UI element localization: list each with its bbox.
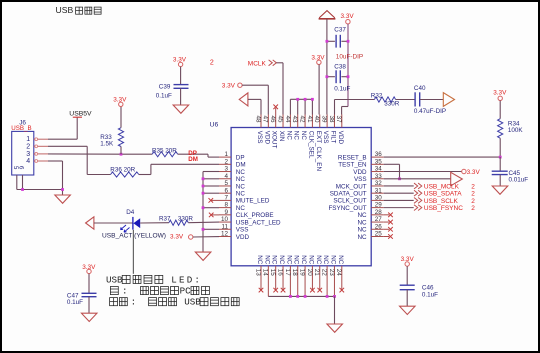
pin 7 MUTE_LED <box>219 195 270 205</box>
no-connect pin 25 <box>384 234 393 239</box>
svg-text:2: 2 <box>471 205 475 212</box>
svg-text:1: 1 <box>26 136 30 143</box>
svg-text:NC: NC <box>293 131 300 141</box>
pin 30 SCLK_OUT <box>333 195 383 205</box>
pin 13 NC <box>254 255 263 292</box>
wire pin33 VSS to port <box>384 172 463 186</box>
power 3.3V to pin40 EXT_CLK_EN <box>311 54 325 114</box>
svg-text:NC: NC <box>322 255 329 265</box>
capacitor C46 0.1uF <box>400 266 438 306</box>
svg-text:4: 4 <box>26 158 30 165</box>
svg-text:18: 18 <box>291 269 298 277</box>
svg-text:2: 2 <box>471 183 475 190</box>
pin 1 DP <box>219 151 245 161</box>
wire pin36 RESET_B to R34/C45 <box>384 156 501 158</box>
svg-text:SDATA_OUT: SDATA_OUT <box>330 190 367 197</box>
ground C46 <box>400 306 416 314</box>
svg-text:USB: USB <box>56 5 74 15</box>
svg-text:VDD: VDD <box>337 131 344 145</box>
svg-text:NC: NC <box>329 255 336 265</box>
svg-text:8: 8 <box>224 202 228 209</box>
wire NC bus left of U6 (pins 3,4,5,6,8,11) <box>203 172 219 253</box>
wire C40 to port <box>420 99 443 101</box>
note line 2: lit = connected to PC <box>110 285 209 296</box>
svg-text:NC: NC <box>285 131 292 141</box>
svg-text:SCLK_OUT: SCLK_OUT <box>333 198 366 205</box>
svg-text:R32: R32 <box>371 93 383 100</box>
svg-text:3.3V: 3.3V <box>113 97 127 104</box>
ground J6 <box>55 195 71 203</box>
svg-text:2: 2 <box>210 59 214 66</box>
pin 24 NC <box>335 255 344 292</box>
svg-text:0.1uF: 0.1uF <box>422 291 438 298</box>
pin 11 VSS <box>219 223 248 233</box>
svg-text:330R: 330R <box>178 215 194 222</box>
svg-text:NC: NC <box>236 190 246 197</box>
pin 2 DM <box>219 158 246 168</box>
svg-text:NC: NC <box>357 234 367 241</box>
capacitor C40 0.47uF-DIP <box>414 85 446 115</box>
svg-text:TEST_EN: TEST_EN <box>338 162 367 169</box>
port USB_SCLK <box>384 198 476 205</box>
port USB_SDATA <box>384 190 476 197</box>
svg-text:C37: C37 <box>334 27 346 34</box>
svg-text:20: 20 <box>306 269 313 277</box>
resistor R37 330R <box>159 215 193 225</box>
svg-text:C39: C39 <box>159 84 171 91</box>
svg-text:D4: D4 <box>126 209 135 216</box>
svg-text:26: 26 <box>375 223 383 230</box>
svg-text:USB_ACT (YELLOW): USB_ACT (YELLOW) <box>102 233 166 240</box>
ground C47 <box>81 313 97 321</box>
pin 27 NC <box>357 216 383 226</box>
pin 26 NC <box>357 223 383 233</box>
pin 12 VDD <box>219 231 250 241</box>
svg-text:21: 21 <box>313 269 320 277</box>
pin 47 VDD <box>262 115 271 145</box>
svg-text:USB_B: USB_B <box>11 125 31 132</box>
ground bottom center <box>327 324 343 332</box>
svg-text:23: 23 <box>328 269 335 277</box>
svg-text:5: 5 <box>224 180 228 187</box>
svg-text:33: 33 <box>375 173 383 180</box>
wire R35 to U6 pin1 (DP) <box>178 154 219 157</box>
svg-text:40: 40 <box>313 116 320 124</box>
svg-text:37: 37 <box>335 116 342 124</box>
power 3.3V to pin47 VDD <box>222 83 268 115</box>
wire pin38 FILT to R32 <box>335 100 375 115</box>
svg-text:45: 45 <box>276 116 283 124</box>
pin 38 FILT <box>328 115 337 144</box>
svg-text:2: 2 <box>224 158 228 165</box>
svg-text:31: 31 <box>375 187 383 194</box>
svg-text:2: 2 <box>471 191 475 198</box>
svg-text:3: 3 <box>224 166 228 173</box>
no-connect pin 27 <box>384 220 393 225</box>
port USB_MCLK <box>384 183 476 190</box>
svg-text:VDD: VDD <box>353 169 367 176</box>
pin 43 NC <box>291 115 300 141</box>
title USB receiver label <box>56 5 102 15</box>
svg-text:EXT_CLK_EN: EXT_CLK_EN <box>315 131 322 172</box>
svg-text:VSS: VSS <box>322 131 329 144</box>
resistor R33 1.5K <box>100 107 123 155</box>
junction R33/DP <box>120 153 123 156</box>
svg-text:6: 6 <box>224 187 228 194</box>
power 3.3V above R34 <box>493 90 507 101</box>
pin 29 FSYNC_OUT <box>328 202 383 212</box>
wire J6 pin3 to R35 (DP) <box>48 153 152 155</box>
pin 22 NC <box>321 255 330 296</box>
svg-text:NC: NC <box>307 255 314 265</box>
wire D4 to R37 <box>140 222 169 224</box>
svg-text:3.3V: 3.3V <box>222 83 236 90</box>
capacitor C38 0.1uF <box>327 64 351 93</box>
svg-text:100K: 100K <box>508 127 524 134</box>
svg-text:2: 2 <box>471 198 475 205</box>
svg-text:NC: NC <box>337 255 344 265</box>
svg-text:3.3V: 3.3V <box>467 169 481 176</box>
wire NC bus above U6 (pins 44-41) <box>290 99 312 114</box>
pin 10 USB_ACT_LED <box>219 216 281 226</box>
svg-text:19: 19 <box>298 269 305 277</box>
svg-text:CLK_PROBE: CLK_PROBE <box>236 212 274 219</box>
svg-text:39: 39 <box>321 116 328 124</box>
svg-text:NC: NC <box>357 219 367 226</box>
capacitor C47 0.1uF <box>67 274 97 314</box>
svg-text:FILT: FILT <box>329 131 336 144</box>
wire NC bus below U6 <box>268 295 334 297</box>
LED D4 <box>121 209 141 232</box>
pin 16 NC <box>276 255 285 292</box>
svg-text:MUTE_LED: MUTE_LED <box>236 198 270 205</box>
svg-text:0.1uF: 0.1uF <box>156 93 172 100</box>
svg-text:NC: NC <box>271 255 278 265</box>
svg-text:CLK_SEL: CLK_SEL <box>307 131 314 159</box>
wire bus to ground <box>334 296 336 324</box>
wire J6 pin2 to R36 <box>48 146 111 174</box>
pin 5 NC <box>219 180 245 190</box>
wire R36 to U6 pin2 (DM) <box>139 164 219 174</box>
pin 28 NC <box>357 209 383 219</box>
svg-text:VSS: VSS <box>354 176 367 183</box>
wire R37 to U6 pin10 <box>188 221 219 224</box>
svg-text:USB_ACT_LED: USB_ACT_LED <box>236 219 281 226</box>
net USB5V on J6 pin 1 <box>48 110 92 139</box>
pin 6 NC <box>219 187 245 197</box>
svg-text:48: 48 <box>254 116 261 124</box>
pin 23 NC <box>328 255 337 296</box>
svg-text:NC: NC <box>357 212 367 219</box>
svg-text:24: 24 <box>335 269 342 277</box>
capacitor C45 0.01uF <box>492 157 529 186</box>
resistor R34 100K <box>498 101 524 158</box>
pin 44 NC <box>284 115 293 141</box>
svg-text:XIN: XIN <box>278 131 285 142</box>
svg-text:43: 43 <box>291 116 298 124</box>
svg-text:1: 1 <box>224 151 228 158</box>
wire port to D4 <box>94 222 133 224</box>
svg-text:MCLK: MCLK <box>248 60 267 67</box>
svg-text:22: 22 <box>321 269 328 277</box>
svg-text:2: 2 <box>26 143 30 150</box>
port arrow USB_ACT (left) <box>86 217 94 229</box>
svg-text:NC: NC <box>300 255 307 265</box>
power 3.3V to U6 pin12 <box>170 234 219 241</box>
svg-text:3.3V: 3.3V <box>170 234 184 241</box>
pin 35 TEST_EN <box>338 158 383 168</box>
svg-text:VDD: VDD <box>263 131 270 145</box>
svg-text:12: 12 <box>221 231 229 238</box>
svg-text:36: 36 <box>375 151 383 158</box>
svg-text:14: 14 <box>262 269 269 277</box>
power 3.3V above C46 <box>401 256 415 266</box>
pin 9 CLK_PROBE <box>219 209 274 219</box>
wire 3.3V rail to pin37 VDD <box>342 107 348 115</box>
pin 37 VDD <box>335 115 344 145</box>
svg-text::: : <box>122 285 128 296</box>
pin 8 NC <box>219 202 245 212</box>
svg-text:28: 28 <box>375 209 383 216</box>
svg-text:VSS: VSS <box>256 131 263 144</box>
resistor R32 330R <box>371 93 400 108</box>
svg-text:3: 3 <box>26 151 30 158</box>
svg-text:LED:: LED: <box>171 274 202 285</box>
svg-text:DM: DM <box>236 162 246 169</box>
svg-text:44: 44 <box>284 116 291 124</box>
pin 18 NC <box>291 255 300 296</box>
svg-text:MCK_OUT: MCK_OUT <box>336 183 367 190</box>
svg-text:USB5V: USB5V <box>69 110 92 117</box>
svg-text:13: 13 <box>254 269 261 277</box>
svg-text:RESET_B: RESET_B <box>338 154 367 161</box>
pin 17 NC <box>284 255 293 296</box>
capacitor C39 0.1uF <box>156 67 189 105</box>
pin 39 VSS <box>321 115 330 144</box>
svg-text:C38: C38 <box>334 64 346 71</box>
svg-text:29: 29 <box>375 202 383 209</box>
no-connect pin 28 <box>384 213 393 218</box>
svg-text:USB_MCLK: USB_MCLK <box>424 183 460 190</box>
pin 3 NC <box>219 166 245 176</box>
op IC U6 body <box>210 122 372 266</box>
no-connect pin46 XOUT <box>273 105 278 115</box>
svg-text:NC: NC <box>357 227 367 234</box>
svg-text:VSS: VSS <box>236 227 249 234</box>
port arrow right of C40 <box>443 93 454 107</box>
svg-text:NC: NC <box>315 255 322 265</box>
svg-text:NC: NC <box>285 255 292 265</box>
svg-text:27: 27 <box>375 216 383 223</box>
connector J6 <box>11 119 48 175</box>
ground C39 <box>173 105 189 113</box>
svg-text:VDD: VDD <box>236 234 250 241</box>
svg-text:NC: NC <box>236 183 246 190</box>
svg-text:38: 38 <box>328 116 335 124</box>
svg-text:34: 34 <box>375 166 383 173</box>
no-connect pin7 <box>209 198 220 203</box>
svg-text:USB_SDATA: USB_SDATA <box>424 191 462 198</box>
port MCLK <box>248 60 277 68</box>
pin 36 RESET_B <box>338 151 384 161</box>
svg-text:3.3V: 3.3V <box>493 90 507 97</box>
svg-text:NC: NC <box>236 205 246 212</box>
svg-text:42: 42 <box>298 116 305 124</box>
pin 33 VSS <box>354 173 384 183</box>
no-connect pin 26 <box>384 227 393 232</box>
svg-text:R35 20R: R35 20R <box>152 148 177 155</box>
svg-text:47: 47 <box>262 116 269 124</box>
svg-text:10: 10 <box>221 216 229 223</box>
ground C45 <box>492 186 508 194</box>
wire pin35 TEST_EN to VSS line <box>384 164 400 179</box>
svg-text:41: 41 <box>306 116 313 124</box>
svg-text:PC: PC <box>180 285 192 296</box>
svg-text:30: 30 <box>375 195 383 202</box>
svg-text:NC: NC <box>300 131 307 141</box>
power 3.3V above C39 <box>173 56 187 66</box>
svg-text:U6: U6 <box>210 122 219 129</box>
svg-text:0.1uF: 0.1uF <box>67 299 83 306</box>
power 3.3V above R33 <box>113 97 127 107</box>
pin 45 XIN <box>276 115 285 142</box>
svg-text:FSYNC_OUT: FSYNC_OUT <box>328 205 366 212</box>
pin 21 NC <box>313 255 322 292</box>
pin 42 NC <box>298 115 307 141</box>
svg-text:3.3V: 3.3V <box>82 264 96 271</box>
pin 15 NC <box>269 255 278 292</box>
svg-text:NC: NC <box>293 255 300 265</box>
power 3.3V rail top right <box>341 13 355 106</box>
pin 25 NC <box>357 231 383 241</box>
svg-text:0.01uF: 0.01uF <box>509 176 529 183</box>
pin 46 XOUT <box>269 115 278 149</box>
pin 4 NC <box>219 173 245 183</box>
svg-text:16: 16 <box>276 269 283 277</box>
svg-text:USB: USB <box>106 274 123 285</box>
svg-text:1.5K: 1.5K <box>100 140 114 147</box>
note line 1: USB action status LED <box>106 274 202 285</box>
pin 14 NC <box>262 255 271 296</box>
svg-text:DP: DP <box>236 154 245 161</box>
svg-text:32: 32 <box>375 180 383 187</box>
svg-text:9: 9 <box>224 209 228 216</box>
no-connect pin9 <box>209 213 219 218</box>
port USB_FSYNC <box>384 205 476 212</box>
power 3.3V above C47 <box>82 264 96 274</box>
pin 41 CLK_SEL <box>306 115 315 159</box>
svg-text:USB_FSYNC: USB_FSYNC <box>424 205 463 212</box>
svg-text:NC: NC <box>236 176 246 183</box>
svg-text::: : <box>131 297 137 308</box>
wire R32 to C40 <box>396 99 415 101</box>
wire MCLK to pin45 XIN <box>276 63 283 115</box>
svg-text:15: 15 <box>269 269 276 277</box>
svg-text:NC: NC <box>263 255 270 265</box>
svg-text:11: 11 <box>221 223 228 230</box>
svg-text:4: 4 <box>224 173 228 180</box>
ground left bus <box>195 252 211 260</box>
pin 19 NC <box>298 255 307 296</box>
pin 20 NC <box>306 255 315 292</box>
svg-text:R36 20R: R36 20R <box>110 166 135 173</box>
ground (up) to pin39 VSS <box>319 11 336 115</box>
svg-text:USB: USB <box>184 297 201 308</box>
capacitor C37 10uF-DIP <box>327 27 363 61</box>
pin 48 VSS <box>254 115 263 144</box>
svg-text:NC: NC <box>236 169 246 176</box>
resistor R36 20R <box>110 166 139 177</box>
svg-text:R37: R37 <box>159 215 171 222</box>
svg-text:NC: NC <box>256 255 263 265</box>
pin 32 MCK_OUT <box>336 180 384 190</box>
wire J6 pins 5,6 to ground <box>17 161 63 195</box>
resistor R35 20R <box>152 148 178 157</box>
svg-text:25: 25 <box>375 231 383 238</box>
wire pin34 VDD to 3.3V <box>384 169 481 176</box>
svg-text:7: 7 <box>224 195 228 202</box>
svg-text:0.1uF: 0.1uF <box>334 85 350 92</box>
svg-text:C40: C40 <box>414 85 426 92</box>
svg-text:46: 46 <box>269 116 276 124</box>
svg-text:10uF-DIP: 10uF-DIP <box>336 53 363 60</box>
port arrow to pin48 VSS <box>239 93 261 115</box>
svg-text:NC: NC <box>278 255 285 265</box>
svg-text:XOUT: XOUT <box>271 131 278 149</box>
svg-text:330R: 330R <box>384 101 400 108</box>
svg-text:DM: DM <box>188 156 198 163</box>
svg-text:17: 17 <box>284 269 291 277</box>
pin 31 SDATA_OUT <box>330 187 384 197</box>
note line 3: blinking = transferring USB data <box>110 297 240 308</box>
pin 40 EXT_CLK_EN <box>313 115 322 172</box>
svg-text:35: 35 <box>375 158 383 165</box>
svg-text:0.47uF-DIP: 0.47uF-DIP <box>414 108 446 115</box>
leader line from LED to note <box>132 230 134 274</box>
pin 34 VDD <box>353 166 383 176</box>
svg-text:USB_SCLK: USB_SCLK <box>424 198 459 205</box>
